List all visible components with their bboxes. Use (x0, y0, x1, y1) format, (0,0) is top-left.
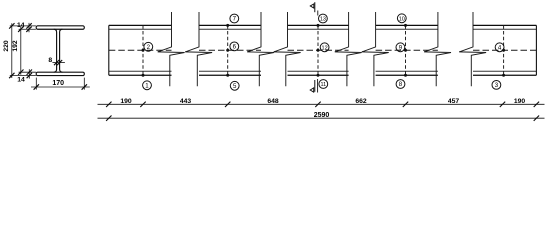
svg-text:2590: 2590 (314, 112, 330, 119)
svg-text:8: 8 (48, 57, 52, 64)
svg-text:190: 190 (120, 98, 132, 105)
beam segment 3 centerline (288, 49, 349, 51)
detail position dashed line (142, 25, 144, 75)
svg-text:662: 662 (355, 98, 367, 105)
beam segment 1 flange lines (109, 25, 172, 75)
I-beam cross-section outline (36, 26, 84, 76)
detail position dashed line (317, 25, 319, 75)
detail circle 9 (396, 43, 405, 52)
svg-text:1: 1 (145, 83, 149, 90)
section cut flag top (310, 2, 318, 15)
break line symbol (274, 12, 301, 86)
dimension chain row (98, 98, 545, 107)
break line symbol (185, 12, 212, 86)
svg-text:13: 13 (320, 17, 326, 23)
svg-text:14: 14 (17, 77, 25, 84)
break line symbol (459, 12, 486, 86)
node junction dot (502, 74, 505, 77)
extension lines top (10, 26, 36, 29)
dimension 170 flange width (31, 78, 90, 90)
beam segment 4 centerline (376, 49, 438, 51)
overall dimension 2590 (98, 112, 545, 121)
break line symbol (424, 12, 451, 86)
break line symbol (158, 12, 185, 86)
node junction dot (142, 49, 145, 52)
svg-text:443: 443 (180, 98, 192, 105)
beam left end plate (108, 25, 110, 75)
detail circle 10 (397, 14, 406, 23)
detail circle 4 (495, 43, 504, 52)
detail position dashed line (503, 25, 505, 75)
dimension 14 bottom flange (17, 69, 32, 83)
beam right end plate (535, 25, 537, 75)
node junction dot (317, 74, 320, 77)
svg-text:3: 3 (495, 82, 499, 89)
node junction dot (226, 24, 229, 27)
beam segment 1 centerline (109, 49, 172, 51)
beam segment 2 centerline (199, 49, 261, 51)
section cut flag bottom (310, 79, 317, 93)
svg-text:11: 11 (320, 82, 326, 88)
svg-text:192: 192 (12, 40, 19, 52)
extension lines bottom (10, 72, 36, 75)
svg-text:8: 8 (399, 81, 403, 88)
svg-text:190: 190 (514, 98, 526, 105)
detail circle 13 (319, 14, 328, 23)
svg-text:12: 12 (322, 46, 328, 52)
detail circle 8 (396, 80, 405, 89)
break line symbol (247, 12, 274, 86)
node junction dot (404, 49, 407, 52)
node junction dot (226, 74, 229, 77)
detail circle 1 (143, 81, 152, 90)
node junction dot (502, 49, 505, 52)
svg-text:6: 6 (233, 44, 237, 51)
detail circle 6 (230, 42, 239, 51)
detail circle 12 (320, 43, 329, 52)
detail circle 5 (230, 81, 239, 90)
break line symbol (335, 12, 362, 86)
node junction dot (317, 24, 320, 27)
svg-text:7: 7 (233, 16, 237, 23)
node junction dot (317, 49, 320, 52)
svg-text:170: 170 (52, 80, 64, 87)
detail circle 7 (230, 14, 239, 23)
dimension 220 vertical (3, 23, 15, 78)
svg-text:5: 5 (233, 83, 237, 90)
node junction dot (404, 24, 407, 27)
detail position dashed line (405, 25, 407, 75)
beam segment 4 flange lines (376, 25, 438, 75)
dimension 8 web (48, 57, 64, 65)
node junction dot (226, 49, 229, 52)
svg-text:9: 9 (399, 45, 403, 52)
detail circle 3 (492, 81, 501, 90)
dimension 14 top flange (17, 22, 32, 32)
detail position dashed line (227, 25, 229, 75)
node junction dot (404, 74, 407, 77)
svg-text:648: 648 (267, 98, 279, 105)
beam segment 5 flange lines (473, 25, 536, 75)
svg-text:4: 4 (498, 45, 502, 52)
svg-text:220: 220 (3, 40, 10, 52)
svg-text:14: 14 (17, 22, 25, 29)
beam segment 3 flange lines (288, 25, 349, 75)
detail circle 11 (319, 80, 328, 89)
beam segment 2 flange lines (199, 25, 261, 75)
node junction dot (142, 74, 145, 77)
beam segment 5 centerline (473, 49, 536, 51)
detail circle 2 (144, 42, 153, 51)
svg-text:10: 10 (399, 17, 405, 23)
break line symbol (362, 12, 389, 86)
dimension 192 vertical (12, 27, 23, 75)
svg-text:457: 457 (448, 98, 460, 105)
